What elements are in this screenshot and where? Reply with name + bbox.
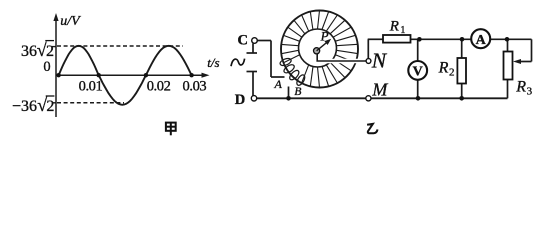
svg-text:A: A [476, 33, 487, 48]
svg-text:0: 0 [43, 59, 50, 75]
svg-text:36: 36 [21, 43, 37, 60]
svg-text:2: 2 [46, 43, 54, 60]
svg-text:t/s: t/s [207, 55, 219, 70]
svg-text:1: 1 [400, 25, 405, 36]
svg-text:R: R [515, 78, 526, 95]
svg-text:R: R [438, 59, 449, 76]
svg-text:2: 2 [46, 98, 54, 115]
svg-text:3: 3 [527, 85, 533, 97]
svg-text:A: A [274, 77, 283, 91]
svg-text:P: P [320, 28, 329, 43]
svg-text:u/V: u/V [60, 14, 81, 29]
svg-text:D: D [235, 92, 245, 108]
svg-text:0.03: 0.03 [183, 78, 207, 94]
svg-text:R: R [389, 18, 399, 34]
svg-text:C: C [238, 33, 248, 49]
svg-text:M: M [371, 80, 388, 100]
svg-text:0.01: 0.01 [79, 78, 103, 94]
svg-text:−36: −36 [12, 98, 37, 115]
svg-text:V: V [413, 64, 423, 79]
svg-text:0.02: 0.02 [147, 78, 171, 94]
svg-text:N: N [371, 49, 388, 73]
svg-text:2: 2 [449, 66, 455, 78]
svg-text:B: B [294, 86, 301, 98]
